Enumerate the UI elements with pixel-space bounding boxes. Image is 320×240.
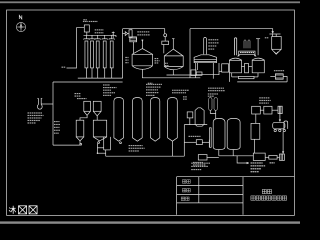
pipe evap riser <box>183 125 185 157</box>
pipe vertical x190 <box>189 29 191 78</box>
cyclone body <box>272 37 282 50</box>
pipe V4 drop <box>105 150 107 156</box>
air pipe P4 <box>257 39 259 56</box>
label F1 left <box>125 57 127 58</box>
label evap small <box>183 96 185 97</box>
title block outline <box>177 176 295 178</box>
inoculum flask neck <box>37 99 39 105</box>
pipe bottom header mid <box>106 155 185 157</box>
hatched filter K7 <box>280 154 285 160</box>
cone top vessel G2 <box>195 108 204 126</box>
title flow diagram <box>251 196 255 200</box>
truck wheels <box>274 129 276 131</box>
pipe K3 to truck <box>279 114 281 121</box>
watermark mufengwang char feng <box>19 206 27 214</box>
pipe left frame vertical <box>52 82 54 145</box>
column outlet header <box>78 77 123 79</box>
pipe V3 stem <box>79 141 81 145</box>
label above table left <box>191 163 193 164</box>
decolor column D1 <box>114 98 124 142</box>
label regen temp <box>95 29 97 30</box>
top window grey bar <box>0 1 300 3</box>
label under K6 <box>270 162 272 163</box>
label xingming <box>181 197 185 201</box>
decolor column D2 <box>133 98 143 142</box>
pipe bottom header left <box>53 144 80 146</box>
label cheng <box>270 162 272 163</box>
small vessel above sterilizer <box>129 30 132 38</box>
pipe cooker drain <box>67 28 85 68</box>
cation column D3 <box>151 98 160 142</box>
pipe K4-K5 <box>254 139 256 153</box>
pipe D4 stem <box>172 141 174 156</box>
air pipe P1 <box>235 38 237 55</box>
fermentation tank FT2 <box>252 58 264 73</box>
pipe product down <box>237 156 248 163</box>
pipe K1-K2 <box>260 109 264 111</box>
label sterilizer <box>137 31 139 32</box>
label decolor tower <box>75 93 77 94</box>
box right of seed tank <box>222 64 229 72</box>
pipe K6-K7 <box>277 156 279 158</box>
compass north arrow <box>16 22 25 31</box>
valve symbol <box>125 32 128 36</box>
pipe top header right <box>190 29 273 32</box>
tall box K4 <box>251 123 260 139</box>
pipe vertical x122 <box>122 29 124 78</box>
pipe cooker to manifold <box>86 32 88 35</box>
watermark mufengwang char mu <box>9 206 16 214</box>
label above D4 <box>172 90 174 91</box>
air filter label box <box>239 51 255 54</box>
column inlet drops and caps <box>85 35 87 39</box>
label feed spec <box>103 84 105 85</box>
label exhaust box <box>274 70 276 71</box>
truck cab <box>284 121 288 129</box>
hatched cooler K3 <box>278 106 282 113</box>
pipe exhaust left <box>270 76 275 78</box>
fermenter F2 neck <box>172 39 174 49</box>
air arrows <box>238 54 240 56</box>
vent symbol <box>112 32 114 39</box>
inoculum flask bulb <box>37 105 42 110</box>
fermenter F2 body <box>164 49 183 66</box>
seed feed pipe <box>204 37 207 54</box>
label xuehao <box>182 189 186 193</box>
pipe F1 bottom <box>142 69 200 78</box>
pipe V1 to V3 <box>80 115 87 120</box>
title block rows <box>177 185 243 187</box>
anion column D4 <box>168 98 178 142</box>
box K2 <box>264 106 272 114</box>
cyclone cap <box>269 33 280 35</box>
pipe G1 line <box>184 124 207 126</box>
thin pipe beside T1 <box>210 128 212 148</box>
box K1 <box>252 106 261 114</box>
label seed tank <box>208 39 210 40</box>
capsule E2 <box>214 98 217 111</box>
hopper V2 <box>93 101 101 111</box>
pump box K5 <box>253 153 265 160</box>
label charcoal <box>129 145 131 146</box>
label above hopper <box>77 98 79 99</box>
label naoh solution <box>28 112 30 113</box>
air pipe P3 <box>248 40 250 48</box>
pipe K1 down <box>255 114 257 123</box>
mixer tank V4 <box>93 120 106 137</box>
fermenter F1 top box <box>130 37 137 40</box>
seed pump box <box>196 72 202 75</box>
fermenter F1 body <box>132 49 153 66</box>
label right spec3 <box>259 97 261 98</box>
heat exchanger F2 <box>162 41 169 44</box>
column manifold pipe <box>84 34 117 36</box>
label cooker feed <box>83 19 85 20</box>
column outlet legs <box>85 68 87 78</box>
label broth right <box>146 84 148 85</box>
hopper V1 <box>84 101 91 111</box>
flat filter box <box>238 76 254 78</box>
box on stem G1 <box>187 112 193 118</box>
label F2 left marks <box>165 63 167 64</box>
fermenter F1 neck <box>141 40 143 49</box>
pipe tanks header <box>207 157 219 159</box>
air pipe P2 <box>244 40 246 48</box>
label under B2 <box>193 162 195 163</box>
label under K5 <box>251 162 253 163</box>
storage tank T1 <box>213 118 225 149</box>
bottom window grey bar <box>0 221 300 223</box>
pipe K2-K3 <box>272 109 278 111</box>
ion exchange columns C1-C5 <box>85 41 88 68</box>
sterilizer box <box>130 38 137 42</box>
cooker box <box>84 25 89 32</box>
pipe F2 bottom <box>167 70 196 78</box>
pipe V2 to V4 <box>96 116 98 120</box>
pipe V4 legs <box>103 137 105 150</box>
pipe top header left <box>123 29 165 34</box>
flask outlet pipe <box>41 103 53 105</box>
label capsules <box>208 93 210 94</box>
seed tank S1 <box>194 55 216 63</box>
pipe long horizontal y82 <box>53 81 123 83</box>
mixer tank V3 <box>76 120 84 137</box>
label evap note <box>189 136 191 137</box>
title ganyou <box>262 190 266 194</box>
label water <box>62 67 64 68</box>
small box K6 <box>269 156 277 160</box>
small box B1 <box>196 140 202 145</box>
pipe FT bottom <box>232 76 239 78</box>
label above table right <box>251 162 253 163</box>
watermark mufengwang char wang <box>29 206 37 214</box>
exhaust box E <box>275 74 283 79</box>
pipe capsules drain <box>210 110 215 118</box>
pipe FT return header <box>237 81 287 83</box>
label side note <box>54 121 56 122</box>
tank truck body <box>273 122 285 129</box>
pump box B2 <box>198 155 207 160</box>
pipe FT1 drop <box>231 73 233 77</box>
pipe K5-K6 <box>265 156 269 158</box>
label jiaohe <box>182 180 186 184</box>
mixer motor F2 <box>164 34 167 37</box>
seed tank legs <box>197 63 199 70</box>
fermentation tank FT1 <box>229 58 241 73</box>
drawing border frame <box>7 10 295 215</box>
label tiny under F1 <box>148 83 150 84</box>
small hx box on pipe <box>191 70 196 76</box>
pipe between tanks <box>245 64 249 73</box>
pipe exhaust right <box>283 77 287 82</box>
capsule E1 <box>209 97 212 110</box>
seed piping <box>196 63 219 75</box>
pipe truck down <box>282 132 284 153</box>
storage tank T2 <box>227 118 240 149</box>
title block dividers <box>242 177 244 215</box>
label F1 right <box>155 58 157 59</box>
label offgas <box>265 37 267 38</box>
label FT bottom <box>208 88 210 89</box>
